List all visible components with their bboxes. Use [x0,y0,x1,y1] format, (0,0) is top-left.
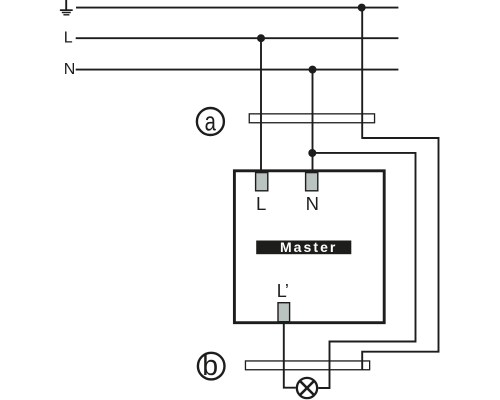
svg-text:L: L [256,193,266,214]
ground [60,0,73,15]
wire N branch to lamp [312,153,415,388]
device Master box [234,171,384,323]
svg-text:a: a [205,107,217,138]
svg-text:Master: Master [280,239,337,255]
wire PE loop to cable b [362,138,438,370]
terminal N [306,173,318,191]
svg-text:b: b [202,350,218,382]
terminal L [256,173,268,191]
svg-text:N: N [306,193,319,214]
label b (circled) [198,350,225,382]
node L junction [257,34,265,42]
svg-text:L: L [64,30,73,47]
svg-text:N: N [64,61,76,78]
terminal L' [278,303,290,322]
label Master [256,239,351,255]
wire PE line [76,7,398,9]
node N junction [309,66,317,74]
wire N line [76,69,399,71]
label a (circled) [197,107,224,138]
wire L' to lamp [284,315,296,388]
wire L drop [260,38,262,172]
wire PE drop [361,8,363,139]
svg-text:L’: L’ [277,281,288,301]
node N branch junction [308,149,316,157]
cable bundle a [249,114,374,123]
lamp [297,378,317,398]
wire L line [76,37,399,39]
cable bundle b [245,361,369,370]
node PE junction [358,4,366,12]
wire N drop [312,70,314,173]
